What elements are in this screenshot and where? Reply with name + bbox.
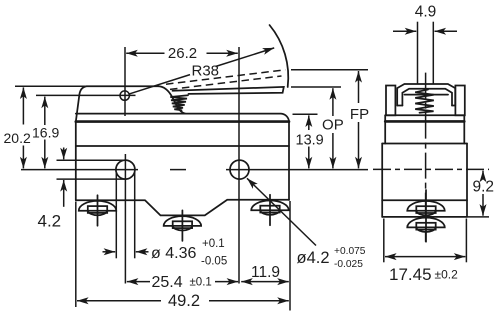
body step line bbox=[76, 145, 289, 147]
svg-text:ø 4.36: ø 4.36 bbox=[151, 245, 196, 262]
svg-text:17.45: 17.45 bbox=[389, 265, 432, 284]
side body step line bbox=[382, 143, 467, 145]
17.45 extension lines bbox=[383, 219, 385, 263]
mounting hole right bbox=[230, 160, 249, 179]
pivot level extension line (16.9) bbox=[36, 94, 136, 96]
dimension OP line bbox=[332, 88, 334, 116]
lever (solid, operating position) bbox=[173, 87, 284, 94]
svg-text:ø4.2: ø4.2 bbox=[297, 249, 330, 267]
svg-text:+0.075: +0.075 bbox=[334, 246, 366, 257]
side screw 1 tip arc bbox=[416, 211, 436, 216]
hole bottom tangent line (4.2) bbox=[57, 178, 127, 180]
svg-text:9.2: 9.2 bbox=[473, 179, 495, 196]
R38 leader arrow bbox=[129, 75, 191, 95]
dimension 9.2 line bbox=[482, 171, 484, 179]
spring serration zigzag bbox=[170, 95, 188, 110]
dimension 4.2 arrows bbox=[63, 148, 65, 160]
screw terminal 3 (right) dome bbox=[251, 201, 289, 211]
side screw 2 tip arc bbox=[416, 227, 436, 232]
svg-text:20.2: 20.2 bbox=[4, 130, 31, 146]
svg-text:±0.1: ±0.1 bbox=[190, 277, 212, 289]
side flange line bbox=[382, 199, 467, 201]
side hole centerline bbox=[373, 168, 489, 170]
side view vertical centerline bbox=[425, 73, 427, 242]
screw 2 tip arc bbox=[172, 226, 192, 231]
side bottom line bbox=[382, 216, 467, 218]
svg-text:25.4: 25.4 bbox=[152, 274, 183, 291]
dimension 4.9 line bbox=[393, 30, 416, 32]
lever dashed (free position) bottom bbox=[170, 76, 282, 89]
side screw 2 slot bbox=[416, 223, 435, 230]
dimension 16.9 line bbox=[44, 97, 46, 125]
pivot circle bbox=[120, 91, 129, 100]
dimension 49.2 line bbox=[77, 300, 161, 302]
body right edge bbox=[288, 121, 290, 200]
dimension 26.2 line bbox=[126, 52, 164, 54]
svg-text:OP: OP bbox=[322, 117, 344, 134]
screw 1 centerline bbox=[97, 195, 99, 226]
hump right curve bbox=[159, 86, 185, 113]
screw 1 tip arc bbox=[88, 211, 108, 216]
screw terminal 1 (left) dome bbox=[79, 201, 117, 211]
dimension 20.2 line bbox=[22, 87, 24, 124]
hump top extension line bbox=[15, 85, 86, 87]
side body top line bbox=[385, 114, 464, 116]
side screws centerline bbox=[425, 190, 427, 242]
svg-text:26.2: 26.2 bbox=[168, 45, 197, 62]
svg-text:-0.05: -0.05 bbox=[201, 256, 227, 268]
svg-text:4.2: 4.2 bbox=[38, 212, 62, 231]
spring seat line bbox=[405, 94, 449, 96]
dimension FP line bbox=[358, 71, 360, 103]
dimension 11.9 line bbox=[241, 281, 264, 283]
svg-text:49.2: 49.2 bbox=[168, 292, 200, 310]
plunger side lines bbox=[417, 22, 419, 85]
pivot vertical extension line bbox=[124, 47, 126, 116]
plunger guide bracket outer bbox=[397, 84, 455, 106]
left retainer wall bbox=[386, 86, 395, 116]
9.2 bottom extension line bbox=[468, 216, 490, 218]
hole top tangent line (4.2) bbox=[57, 159, 127, 161]
body top edge line bbox=[76, 114, 289, 123]
screw 3 tip arc bbox=[260, 210, 280, 215]
side body upper sides bbox=[384, 115, 386, 143]
screw 2 centerline bbox=[181, 210, 183, 241]
left hole centerline vertical bbox=[124, 154, 126, 284]
svg-text:R38: R38 bbox=[192, 63, 220, 80]
lever dashed (free position) top bbox=[166, 70, 285, 84]
right hole vertical extension bbox=[238, 47, 240, 284]
body molding line bbox=[76, 120, 289, 123]
screw 3 centerline bbox=[269, 195, 271, 226]
dimension 25.4 line bbox=[127, 281, 150, 283]
svg-text:13.9: 13.9 bbox=[296, 133, 324, 149]
side screw 2 dome bbox=[407, 218, 445, 228]
svg-text:4.9: 4.9 bbox=[415, 4, 437, 21]
side screw 1 slot bbox=[416, 206, 435, 213]
svg-text:16.9: 16.9 bbox=[32, 125, 59, 141]
bracket inner bbox=[402, 89, 452, 106]
switch body outline (front view) bbox=[76, 86, 159, 200]
svg-text:11.9: 11.9 bbox=[251, 264, 280, 281]
hole edge extension lines bbox=[115, 172, 117, 258]
right retainer wall bbox=[455, 86, 464, 116]
screw 1 slot bbox=[88, 206, 107, 213]
body left extension line bbox=[75, 202, 77, 308]
dimension 17.45 line bbox=[385, 256, 424, 258]
OP extension line bbox=[291, 86, 341, 88]
body bottom profile with notch bbox=[76, 200, 289, 216]
svg-text:+0.1: +0.1 bbox=[202, 238, 225, 250]
13.9 top extension line bbox=[293, 113, 318, 115]
screw 3 slot bbox=[260, 206, 279, 213]
lever swing arc R38 bbox=[270, 25, 289, 87]
dimension 13.9 line bbox=[308, 115, 310, 130]
FP extension line bbox=[291, 69, 368, 71]
hole centerline (front view) bbox=[21, 169, 138, 171]
leader arrow hole dia 4.2 bbox=[247, 178, 316, 245]
svg-text:±0.2: ±0.2 bbox=[435, 268, 459, 282]
side body lower sides bbox=[381, 144, 383, 217]
side screw 1 dome bbox=[407, 201, 445, 211]
screw terminal 2 (middle) dome bbox=[164, 216, 202, 226]
bracket feet bbox=[397, 105, 402, 107]
screw 2 slot bbox=[173, 221, 192, 228]
mounting hole left bbox=[116, 160, 135, 179]
side body molding line bbox=[385, 120, 464, 123]
coil spring zigzag bbox=[415, 90, 434, 113]
body right extension line bbox=[289, 201, 291, 311]
dimension hole dia 4.36 arrows bbox=[103, 251, 116, 253]
svg-text:FP: FP bbox=[350, 106, 369, 123]
svg-text:-0.025: -0.025 bbox=[334, 259, 363, 270]
